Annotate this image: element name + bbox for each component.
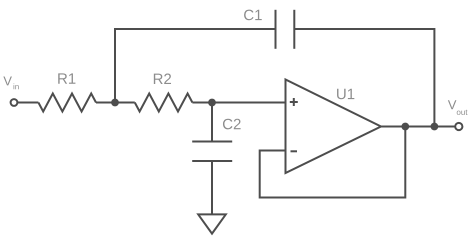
label C1 xyxy=(244,10,262,21)
ground xyxy=(198,214,226,233)
label R1 xyxy=(58,73,75,83)
label R2 xyxy=(154,74,171,84)
node C junction dot (feedback tap) xyxy=(401,123,409,131)
wire node A up and right to C1 xyxy=(115,29,276,103)
capacitor C2 xyxy=(192,141,232,143)
label Vout xyxy=(448,100,468,115)
label U1 xyxy=(337,89,354,99)
output terminal Vout xyxy=(455,123,462,130)
op-amp plus input symbol xyxy=(290,101,298,103)
wire R2 to op-amp + input xyxy=(192,102,285,104)
wire C1 right to output node xyxy=(294,29,434,127)
op-amp U1 xyxy=(286,80,382,174)
wire feedback from minus input to output node xyxy=(260,127,406,198)
input terminal Vin xyxy=(11,99,18,106)
node B junction dot xyxy=(208,99,216,107)
node A junction dot xyxy=(111,99,119,107)
label C2 xyxy=(223,119,241,130)
wire op-amp output to Vout xyxy=(381,126,455,128)
wire node B down to C2 xyxy=(211,103,213,142)
resistor R2 xyxy=(135,94,193,112)
wire C2 to ground xyxy=(211,161,213,215)
wire R1 to R2 xyxy=(96,102,135,104)
resistor R1 xyxy=(38,94,96,112)
wire Vin to R1 xyxy=(18,102,39,104)
capacitor C1 xyxy=(275,10,277,49)
label Vin xyxy=(3,76,18,89)
node D junction dot (C1 tap) xyxy=(431,123,439,131)
op-amp minus input symbol xyxy=(291,150,298,152)
